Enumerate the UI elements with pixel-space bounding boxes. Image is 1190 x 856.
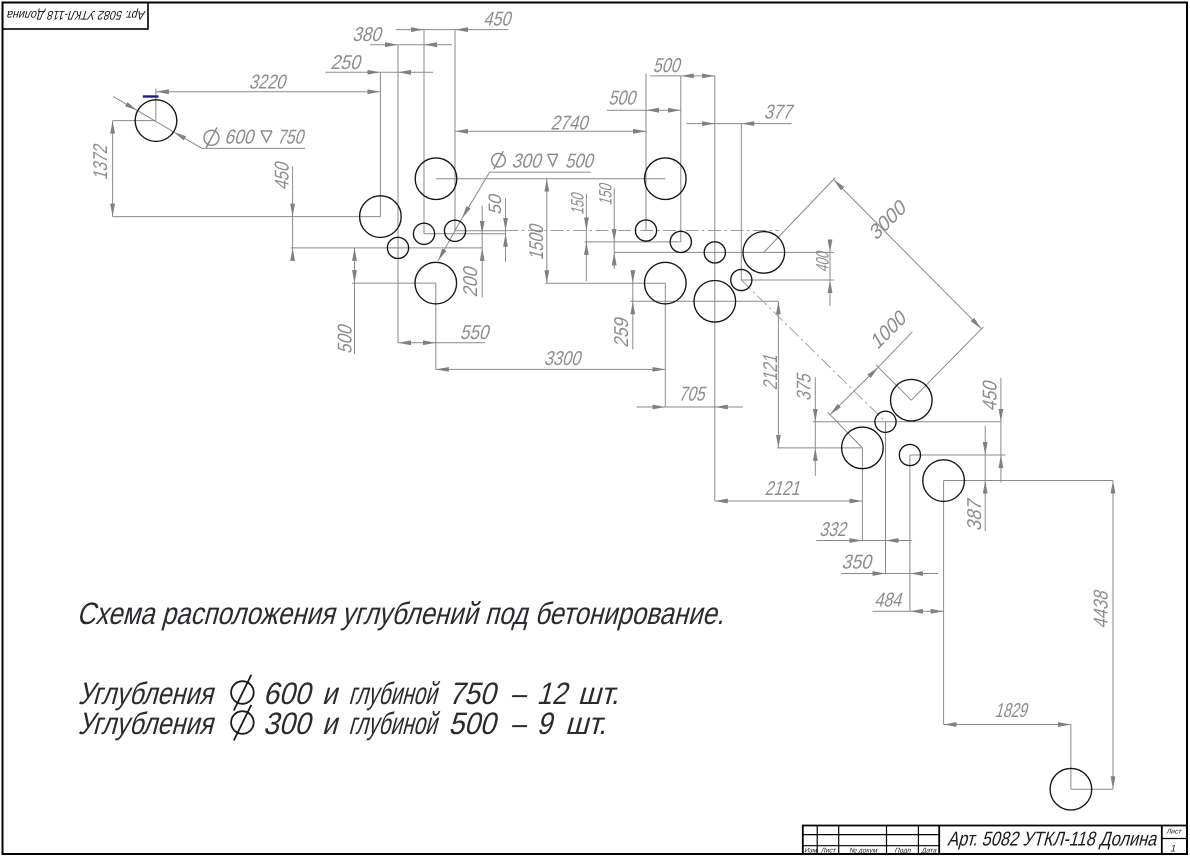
recess diameter 300 S7 xyxy=(731,269,752,290)
recess diameter 300 S8 xyxy=(875,411,896,432)
wire row S2 xyxy=(424,233,506,235)
svg-text:шт.: шт. xyxy=(563,706,613,741)
dim arrow top 150 b xyxy=(613,188,615,242)
dim line 377 xyxy=(715,123,742,125)
svg-text:150: 150 xyxy=(595,180,616,207)
wire row B1 xyxy=(113,120,156,122)
dim line 380 xyxy=(398,44,424,46)
dim arrow left 332 xyxy=(816,540,862,542)
dim line 3220 xyxy=(156,91,381,93)
dim line 150 b xyxy=(613,242,615,253)
svg-text:1: 1 xyxy=(1169,844,1177,855)
recess diameter 600 B11 xyxy=(923,460,965,502)
dim line 150 a xyxy=(585,231,587,242)
dim line 375 xyxy=(814,422,816,448)
dim line 2121 vertical xyxy=(777,301,779,448)
wire column B12 upper xyxy=(1070,725,1072,790)
dim arrow top 50 xyxy=(505,198,507,231)
dim arrow left 450 top xyxy=(396,29,424,31)
wire column B6 lower xyxy=(664,283,666,407)
svg-text:Арт. 5082 УТКЛ-118 Долина: Арт. 5082 УТКЛ-118 Долина xyxy=(4,8,147,23)
svg-text:259: 259 xyxy=(611,314,633,349)
dim arrow bottom 387 xyxy=(984,481,986,531)
wire column S4 xyxy=(645,74,647,231)
wire extension 3000 from B9 xyxy=(911,327,983,400)
svg-text:Подп: Подп xyxy=(894,848,912,855)
recess diameter 300 S1 xyxy=(387,237,408,258)
dim arrow top 375 xyxy=(814,377,816,422)
svg-text:380: 380 xyxy=(351,24,385,46)
leader text diameter 600 depth 750 xyxy=(204,130,219,145)
dim arrow left 250 xyxy=(325,71,380,73)
dim line 450 top xyxy=(424,29,455,31)
wire column B2 xyxy=(379,72,381,216)
svg-text:350: 350 xyxy=(840,552,875,574)
dim arrow right 705 xyxy=(715,406,743,408)
wire row B2 xyxy=(113,216,381,218)
dim line 500 a xyxy=(681,75,715,77)
dim line 450 right xyxy=(1000,422,1002,455)
svg-text:3000: 3000 xyxy=(867,195,909,245)
svg-text:Лист: Лист xyxy=(820,848,837,855)
recess diameter 600 B2 xyxy=(360,196,402,238)
svg-text:Дата: Дата xyxy=(921,848,938,855)
dim line 2121 horizontal xyxy=(715,500,863,502)
svg-text:500: 500 xyxy=(607,88,640,110)
wire column B7 lower xyxy=(714,301,716,501)
recess diameter 600 B5 xyxy=(645,158,687,200)
recess diameter 600 B6 xyxy=(645,262,687,304)
blue revision tick xyxy=(143,95,159,97)
wire column B10 lower xyxy=(861,448,863,541)
dim arrow right 332 xyxy=(886,540,913,542)
wire column S8 lower xyxy=(885,422,887,574)
dim arrow top 200 xyxy=(481,206,483,234)
dim arrow bottom 150 a xyxy=(585,242,587,281)
recess diameter 300 S2 xyxy=(413,223,434,244)
wire dim tail 500 b xyxy=(607,109,646,111)
dim line 400 xyxy=(829,252,831,280)
dim arrow left 350 xyxy=(841,573,885,575)
dim arrow right 450 top xyxy=(455,29,508,31)
recess diameter 300 S3 xyxy=(444,220,465,241)
svg-text:500: 500 xyxy=(564,151,597,173)
title block grid xyxy=(803,826,1188,855)
wire extension 1000 from B9 xyxy=(876,365,911,400)
dim line 350 xyxy=(886,573,910,575)
svg-text:500: 500 xyxy=(446,706,502,741)
dim arrow right 350 xyxy=(910,573,938,575)
svg-text:1000: 1000 xyxy=(869,305,910,354)
dim arrow bottom 259 xyxy=(632,301,634,349)
dim arrow top 450 left xyxy=(292,166,294,216)
recess diameter 600 B9 xyxy=(891,379,933,421)
centerline diagonal xyxy=(741,280,885,422)
svg-text:№ докум: № докум xyxy=(848,848,878,855)
svg-text:250: 250 xyxy=(329,52,364,74)
wire row B3-B5 xyxy=(436,178,665,180)
recess diameter 600 B7 xyxy=(694,281,736,323)
recess diameter 300 S9 xyxy=(899,444,920,465)
svg-text:глубиной: глубиной xyxy=(346,706,443,741)
dim line 705 xyxy=(665,406,715,408)
stamp box top-left xyxy=(3,3,149,30)
svg-text:4438: 4438 xyxy=(1091,587,1113,630)
dim arrow bottom 450 left xyxy=(292,248,294,260)
dim line 500 left xyxy=(354,248,356,283)
svg-text:Арт. 5082 УТКЛ-118 Долина: Арт. 5082 УТКЛ-118 Долина xyxy=(946,829,1161,851)
dim line 1372 xyxy=(112,121,114,217)
recess diameter 300 S5 xyxy=(670,231,691,252)
dim arrow right 380 xyxy=(424,44,452,46)
recess diameter 600 B8 xyxy=(743,232,785,274)
dim line 250 xyxy=(380,71,398,73)
wire dim tail 484 xyxy=(872,610,910,612)
svg-text:Схема расположения углублений: Схема расположения углублений под бетони… xyxy=(75,595,731,630)
wire row B12 xyxy=(1071,788,1113,790)
wire column B1 xyxy=(155,88,157,120)
svg-text:377: 377 xyxy=(762,102,796,124)
dim arrow bottom 400 xyxy=(829,280,831,306)
wire dim tail 500 a xyxy=(650,75,681,77)
dim arrow top 150 a xyxy=(585,194,587,231)
dim arrow top 387 xyxy=(984,426,986,455)
svg-text:50: 50 xyxy=(484,191,505,216)
wire dim tail 550 xyxy=(436,342,485,344)
wire column S3 xyxy=(454,30,456,231)
recess diameter 600 B1 xyxy=(135,100,177,142)
wire row S3 xyxy=(455,230,506,232)
svg-text:484: 484 xyxy=(873,590,906,612)
dim line 3000 xyxy=(834,180,982,329)
svg-text:1829: 1829 xyxy=(993,700,1031,722)
wire column S6 xyxy=(714,76,716,301)
dim line 259 xyxy=(632,283,634,301)
svg-text:300: 300 xyxy=(261,706,317,741)
dim arrow left 377 xyxy=(686,123,714,125)
svg-text:600: 600 xyxy=(223,127,258,149)
dim arrow bottom 50 xyxy=(505,234,507,262)
svg-text:500: 500 xyxy=(335,322,357,356)
wire column S5 xyxy=(680,76,682,242)
wire row B7 xyxy=(630,300,778,302)
dim arrow bottom 450 right xyxy=(1000,455,1002,482)
svg-text:550: 550 xyxy=(458,322,492,344)
wire row S9 xyxy=(910,454,1006,456)
dim line 2740 xyxy=(455,130,646,132)
dim arrow bottom 200 xyxy=(481,248,483,298)
dim line 484 xyxy=(910,610,944,612)
dim arrow right 377 xyxy=(741,123,791,125)
wire row B10 xyxy=(777,447,862,449)
svg-text:450: 450 xyxy=(482,9,515,31)
svg-text:332: 332 xyxy=(818,519,850,541)
svg-text:2740: 2740 xyxy=(549,113,592,135)
wire row S6-B8 xyxy=(614,251,834,253)
leader diameter 300 at S3/B4 xyxy=(462,172,490,218)
wire row S5 xyxy=(585,241,681,243)
svg-text:Лист: Лист xyxy=(1166,829,1183,836)
centerline horizontal xyxy=(506,230,780,232)
dim line 3300 xyxy=(436,368,666,370)
svg-text:375: 375 xyxy=(794,370,816,402)
recess diameter 600 B3 xyxy=(415,158,457,200)
wire column S1 lower xyxy=(397,248,399,343)
svg-text:2121: 2121 xyxy=(763,478,803,500)
dim line 550 xyxy=(398,342,436,344)
wire row S7 xyxy=(741,279,834,281)
wire column B11 lower xyxy=(943,481,945,725)
svg-text:387: 387 xyxy=(964,496,986,533)
recess diameter 300 S4 xyxy=(635,220,656,241)
svg-text:Углубления: Углубления xyxy=(76,706,220,741)
wire column B4 lower xyxy=(435,283,437,369)
svg-text:1500: 1500 xyxy=(526,221,548,262)
svg-text:2121: 2121 xyxy=(760,351,782,392)
wire column S9 lower xyxy=(909,455,911,611)
svg-text:500: 500 xyxy=(651,55,684,77)
wire row B11 xyxy=(944,480,1113,482)
dim line 387 xyxy=(984,455,986,481)
wire row B6 xyxy=(545,282,665,284)
dim line 332 xyxy=(862,540,885,542)
recess diameter 300 S6 xyxy=(704,242,725,263)
svg-text:450: 450 xyxy=(272,159,294,192)
dim arrow top 400 xyxy=(829,243,831,252)
wire extension 1000 from B10 xyxy=(828,412,863,448)
wire dim tail 1000 xyxy=(878,332,912,367)
dim arrow bottom 150 b xyxy=(613,252,615,269)
svg-text:3300: 3300 xyxy=(542,348,584,370)
svg-text:150: 150 xyxy=(567,190,588,217)
diameter symbol line 2 xyxy=(231,681,254,704)
dim arrow left 705 xyxy=(637,406,666,408)
svg-text:400: 400 xyxy=(812,248,833,274)
svg-text:705: 705 xyxy=(677,384,709,406)
wire dim tail 500 left xyxy=(354,283,356,354)
svg-text:3220: 3220 xyxy=(247,72,289,94)
leader text diameter 300 depth 500 xyxy=(492,153,506,167)
wire column S1 upper xyxy=(397,45,399,248)
dim arrow top 450 right xyxy=(1000,378,1002,422)
dim line 1829 xyxy=(944,724,1071,726)
wire row S8 xyxy=(813,421,1001,423)
wire column S7 xyxy=(740,124,742,280)
wire row B4 left xyxy=(352,282,436,284)
dim line 1500 xyxy=(546,179,548,284)
recess diameter 600 B4 xyxy=(415,262,457,304)
recess diameter 600 B10 xyxy=(842,427,884,469)
dim line 500 b xyxy=(646,109,681,111)
wire row S1 xyxy=(291,247,483,249)
dim line 50 xyxy=(505,231,507,234)
svg-text:450: 450 xyxy=(980,378,1002,413)
wire column S2 xyxy=(423,30,425,234)
dim arrow left 380 xyxy=(370,44,398,46)
dim arrow bottom 375 xyxy=(814,448,816,476)
dim line 450 left xyxy=(292,217,294,248)
wire extension 3000 from B8 xyxy=(764,178,836,253)
dim arrow right 250 xyxy=(398,71,433,73)
svg-text:300: 300 xyxy=(510,151,545,173)
svg-text:1372: 1372 xyxy=(90,141,112,181)
dim line 200 xyxy=(481,234,483,248)
leader diameter 600 at B1 xyxy=(113,97,137,111)
svg-text:200: 200 xyxy=(460,263,482,298)
diameter symbol line 3 xyxy=(231,711,254,734)
dim line 4438 xyxy=(1112,481,1114,790)
svg-text:Изм: Изм xyxy=(803,848,818,855)
dim line 1000 xyxy=(830,367,878,415)
svg-text:750: 750 xyxy=(276,127,308,149)
recess diameter 600 B12 xyxy=(1050,768,1092,810)
dim arrow top 259 xyxy=(632,270,634,283)
